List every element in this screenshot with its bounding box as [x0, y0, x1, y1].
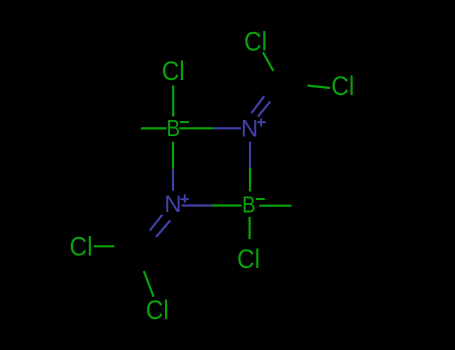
wire C1 to Cl top (diagonal) — [263, 52, 273, 71]
wire ring right side N1-B2 (green half) — [249, 168, 251, 192]
svg-text:Cl: Cl — [146, 295, 169, 325]
svg-text:N: N — [241, 115, 258, 142]
wire ring top side B1-N1 (green half) — [179, 127, 213, 129]
wire ring left side B1-N2 (green half) — [172, 142, 174, 169]
wire double bond N2=C2 line 1 — [150, 215, 163, 231]
svg-text:N: N — [164, 191, 181, 218]
wire C2 to Cl bottom (diagonal) — [144, 271, 154, 297]
wire C1 to Cl right — [308, 86, 331, 89]
svg-text:Cl: Cl — [70, 232, 93, 262]
wire double bond N1=C1 line 1 — [252, 96, 265, 113]
wire C2 to Cl left — [94, 245, 115, 247]
wire double bond N2=C2 line 2 — [156, 220, 170, 237]
svg-text:Cl: Cl — [331, 71, 354, 101]
wire B2 methyl (right) — [259, 205, 291, 207]
charge minus on B2 — [256, 198, 265, 200]
svg-text:Cl: Cl — [162, 56, 185, 86]
wire ring left side B1-N2 (blue half) — [172, 169, 174, 191]
charge plus on N1 — [257, 118, 266, 126]
svg-text:Cl: Cl — [244, 26, 267, 56]
wire ring bottom side N2-B2 (blue half) — [182, 204, 213, 206]
charge plus on N2 — [180, 194, 189, 203]
wire B1 to Cl (vertical) — [172, 85, 174, 116]
wire ring right side N1-B2 (blue half) — [249, 142, 251, 168]
wire ring bottom side N2-B2 (green half) — [212, 204, 241, 206]
svg-text:B: B — [167, 115, 181, 141]
wire ring top side B1-N1 (blue half) — [213, 127, 241, 129]
charge minus on B1 — [180, 121, 189, 123]
svg-text:Cl: Cl — [237, 244, 260, 274]
wire B2 to Cl (vertical) — [249, 217, 251, 239]
wire double bond N1=C1 line 2 — [258, 102, 270, 117]
wire B1 methyl (left) — [141, 127, 167, 129]
svg-text:B: B — [242, 191, 256, 217]
